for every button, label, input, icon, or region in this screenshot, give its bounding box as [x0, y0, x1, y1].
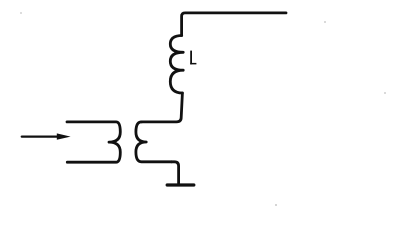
speck [275, 204, 277, 206]
wire inductor bottom to transformer secondary [142, 93, 183, 122]
input arrow [22, 133, 71, 139]
inductor L [170, 36, 183, 94]
ground [167, 183, 194, 186]
speck [20, 12, 22, 14]
transformer secondary winding [136, 122, 172, 162]
wire inductor top to top-right rail [182, 13, 286, 36]
label L [190, 51, 196, 65]
wire secondary to ground [172, 162, 179, 184]
transformer primary winding [67, 122, 120, 162]
speck [324, 21, 326, 23]
speck [384, 92, 386, 94]
